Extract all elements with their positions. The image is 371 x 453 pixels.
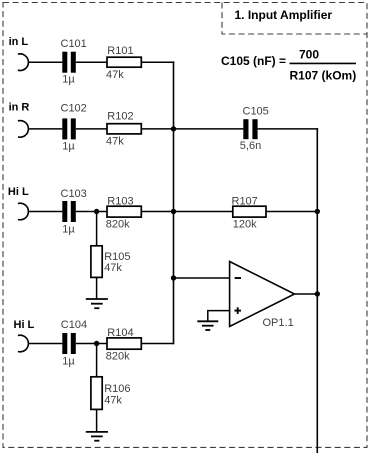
wire — [29, 343, 62, 345]
svg-text:R106: R106 — [104, 383, 130, 395]
capacitor C104 — [61, 319, 87, 368]
svg-text:5,6n: 5,6n — [240, 140, 261, 152]
connector in R — [9, 102, 30, 138]
svg-text:R101: R101 — [107, 45, 133, 57]
node junction — [315, 291, 320, 296]
ground — [86, 432, 108, 441]
node junction — [171, 209, 176, 214]
resistor R101 — [106, 45, 141, 81]
svg-text:C104: C104 — [61, 319, 87, 331]
wire — [76, 128, 107, 130]
wire — [258, 128, 319, 130]
wire — [96, 277, 98, 299]
wire — [76, 61, 107, 63]
svg-text:OP1.1: OP1.1 — [263, 317, 294, 329]
svg-text:R107 (kOm): R107 (kOm) — [290, 69, 357, 83]
wire — [141, 343, 174, 345]
wire right bus — [316, 128, 318, 453]
svg-text:120k: 120k — [233, 218, 257, 230]
formula C105 (nF) = 700 / R107 (kOm) — [221, 47, 356, 82]
wire — [29, 61, 62, 63]
capacitor C103 — [61, 188, 87, 236]
svg-text:1µ: 1µ — [62, 74, 75, 86]
svg-text:47k: 47k — [106, 69, 124, 81]
wire — [141, 128, 243, 130]
resistor R105 — [91, 246, 131, 278]
svg-text:Hi L: Hi L — [14, 319, 35, 331]
svg-text:700: 700 — [299, 47, 319, 61]
svg-text:R102: R102 — [107, 110, 133, 122]
svg-text:47k: 47k — [104, 262, 122, 274]
svg-text:47k: 47k — [106, 136, 124, 148]
node junction — [94, 341, 99, 346]
wire op-amp non-inverting input — [208, 311, 230, 321]
node junction — [315, 209, 320, 214]
svg-text:C105: C105 — [243, 106, 269, 118]
connector in L — [9, 36, 29, 71]
wire R105 branch — [96, 212, 98, 246]
svg-text:Hi L: Hi L — [8, 186, 29, 198]
svg-text:C103: C103 — [61, 188, 87, 200]
svg-text:1µ: 1µ — [62, 356, 75, 368]
wire — [76, 211, 107, 213]
wire — [96, 409, 98, 432]
wire op-amp output — [295, 293, 319, 295]
wire left bus — [173, 61, 175, 344]
ground — [197, 321, 218, 330]
wire R106 branch — [96, 344, 98, 377]
svg-text:in R: in R — [9, 102, 30, 114]
svg-text:C102: C102 — [61, 103, 87, 115]
node junction — [171, 275, 176, 280]
resistor R104 — [106, 327, 142, 363]
resistor R106 — [91, 377, 131, 410]
capacitor C101 — [61, 38, 87, 86]
svg-text:1µ: 1µ — [62, 141, 75, 153]
wire — [266, 211, 317, 213]
svg-text:C101: C101 — [61, 38, 87, 50]
svg-text:1µ: 1µ — [62, 224, 75, 236]
wire — [29, 211, 62, 213]
capacitor C102 — [61, 103, 87, 153]
node junction — [94, 209, 99, 214]
svg-text:47k: 47k — [104, 395, 122, 407]
wire — [29, 128, 62, 130]
resistor R103 — [106, 196, 142, 231]
resistor R102 — [106, 110, 141, 147]
capacitor C105 — [240, 106, 269, 152]
svg-text:C105 (nF) =: C105 (nF) = — [221, 54, 286, 68]
svg-text:820k: 820k — [106, 351, 130, 363]
node junction — [171, 126, 176, 131]
wire — [141, 211, 233, 213]
svg-text:820k: 820k — [106, 218, 130, 230]
op-amp U1 OP1.1 — [230, 262, 295, 330]
resistor R107 — [232, 196, 267, 231]
connector Hi L (upper) — [8, 186, 29, 220]
title box "1. Input Amplifier" — [222, 3, 367, 35]
svg-text:R105: R105 — [104, 251, 130, 263]
ground — [86, 299, 108, 308]
wire op-amp inverting input — [174, 277, 230, 279]
svg-text:in L: in L — [9, 36, 29, 48]
wire — [76, 343, 107, 345]
wire — [141, 61, 174, 63]
svg-text:1. Input Amplifier: 1. Input Amplifier — [235, 8, 333, 22]
connector Hi L (lower) — [14, 319, 35, 352]
